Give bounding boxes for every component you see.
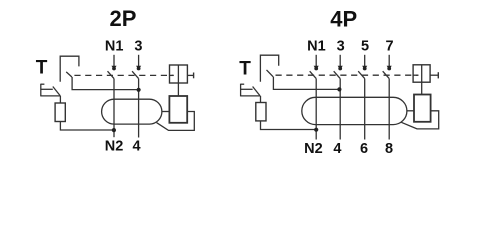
relay right stop (4P) [430, 74, 438, 76]
wire pole 5 (4P) [364, 79, 366, 140]
test contact feed wire (hook from button to fixed contact) [60, 56, 79, 81]
junction node on N2 wire (4P) [314, 128, 318, 132]
svg-text:6: 6 [360, 141, 368, 157]
wire toroid secondary to coil left (4P) [407, 110, 414, 112]
wire test contact to node on pole 3 [72, 77, 139, 90]
test contact blade [66, 72, 72, 77]
trip relay U (square with divider) [170, 65, 188, 83]
wire toroid secondary to coil right (wrap, 4P) [401, 111, 438, 129]
wire pole 3 (through toroid to 4) [138, 79, 140, 138]
pole 7 contact blade (4P) [383, 71, 390, 78]
junction node on pole 3 wire [137, 88, 141, 92]
svg-text:2P: 2P [110, 6, 137, 31]
junction node on pole 3 wire (4P) [337, 87, 341, 91]
svg-text:4: 4 [333, 141, 341, 157]
terminal arrow 7 (4P) [387, 55, 392, 71]
relay left link stub (4P) [413, 74, 418, 76]
pole N contact blade (4P) [310, 71, 317, 78]
terminal arrow 3 [136, 55, 141, 71]
resistor R (test) [55, 103, 65, 122]
relay right stop [187, 74, 193, 76]
test contact feed wire (hook, 4P) [260, 55, 278, 81]
terminal arrow N1 (4P) [314, 55, 319, 71]
toroidal current transformer (4P) [302, 97, 407, 124]
wire toroid secondary to coil right (wrap) [157, 112, 195, 131]
svg-text:N1: N1 [105, 38, 124, 54]
svg-text:5: 5 [361, 39, 369, 55]
mechanism linkage (dashed) [74, 74, 173, 76]
wire pole 7 (4P) [388, 79, 390, 140]
wire pole N (through toroid to N2) [113, 79, 115, 138]
wire pole 3 (4P) [339, 79, 341, 140]
terminal arrow 5 (4P) [362, 55, 367, 71]
wire resistor to node on N2 (4P) [261, 121, 317, 130]
junction node on N2 wire [112, 128, 116, 132]
wire button to resistor [59, 96, 61, 103]
test button T [41, 84, 61, 97]
svg-text:3: 3 [337, 39, 345, 55]
wire resistor to node on N2 [60, 122, 113, 131]
pole 5 contact blade (4P) [358, 71, 365, 78]
test button T (4P) [241, 84, 261, 97]
terminal arrow N1 [111, 55, 116, 71]
svg-text:T: T [239, 59, 251, 80]
svg-text:N2: N2 [304, 141, 323, 157]
trip coil [169, 96, 187, 123]
trip coil (4P) [414, 95, 431, 122]
relay left link stub [170, 74, 174, 76]
wire pole N (4P) [315, 79, 317, 140]
svg-text:3: 3 [134, 38, 142, 54]
svg-text:N1: N1 [307, 39, 326, 55]
toroidal current transformer [102, 99, 162, 124]
svg-text:T: T [36, 58, 48, 79]
trip relay U (square with divider, 4P) [413, 65, 430, 82]
relay divider / actuator link to coil [177, 65, 179, 96]
wire test contact to node on pole 3 (4P) [273, 77, 339, 90]
svg-text:4P: 4P [330, 6, 357, 31]
pole 3 contact blade [132, 71, 139, 78]
svg-text:8: 8 [385, 141, 393, 157]
terminal arrow 3 (4P) [338, 55, 343, 71]
test contact blade (4P) [267, 70, 274, 77]
svg-text:N2: N2 [105, 139, 124, 155]
svg-text:4: 4 [133, 139, 141, 155]
relay divider / actuator link to coil (4P) [421, 65, 423, 95]
svg-text:7: 7 [386, 39, 394, 55]
pole N contact blade [108, 71, 115, 78]
wire button to resistor (4P) [260, 96, 262, 103]
resistor R (4P) [256, 103, 266, 121]
pole 3 contact blade (4P) [334, 71, 341, 78]
mechanism linkage (dashed, 4P) [276, 74, 418, 76]
wire toroid secondary to coil left [162, 111, 170, 113]
